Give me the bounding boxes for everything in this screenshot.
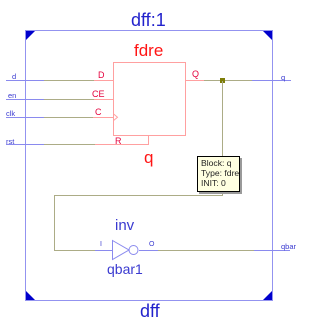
port d stub (blue) xyxy=(6,80,44,81)
pin Q wire (red) xyxy=(186,80,204,81)
inverter pin I label xyxy=(100,241,102,248)
net d (olive) xyxy=(44,80,94,81)
port qbar stub (blue) xyxy=(254,250,290,251)
net en (olive) xyxy=(44,99,94,100)
corner triangle top-right xyxy=(263,31,272,40)
net q vertical from junction (olive) xyxy=(222,81,223,195)
port clk stub (blue) xyxy=(6,117,44,118)
pin Q label xyxy=(192,69,199,79)
pin R label xyxy=(115,136,122,146)
sheet border xyxy=(25,30,273,301)
inverter pin O label xyxy=(149,241,154,248)
pin CE label xyxy=(92,89,105,99)
port d label xyxy=(12,72,16,81)
port en stub (blue) xyxy=(6,99,44,100)
net rst (olive) xyxy=(44,144,95,145)
port rst label xyxy=(6,137,14,146)
port clk label xyxy=(6,109,15,118)
port rst stub (blue) xyxy=(6,144,44,145)
net q horizontal feedback (olive) xyxy=(54,195,223,196)
port qbar label xyxy=(281,242,296,251)
port q label xyxy=(281,73,285,82)
corner triangle top-left xyxy=(26,31,35,40)
inverter output pin wire (blue) xyxy=(139,250,158,251)
symbol type label fdre xyxy=(134,41,163,61)
inverter input pin wire (blue) xyxy=(95,250,113,251)
pin C wire (red) xyxy=(93,117,113,118)
inverter U qbar1 symbol xyxy=(112,239,140,261)
instance name label q xyxy=(144,148,153,168)
net q vertical feedback left (olive) xyxy=(54,195,55,250)
net q bottom horizontal to inverter (olive) xyxy=(54,250,95,251)
sheet title dff:1 xyxy=(131,10,166,31)
net clk (olive) xyxy=(44,117,93,118)
pin CE wire (red) xyxy=(94,99,113,100)
port en label xyxy=(8,91,16,100)
tooltip box Block q xyxy=(197,156,240,192)
pin D wire (red) xyxy=(94,80,113,81)
symbol type label inv xyxy=(115,217,134,234)
corner triangle bottom-left xyxy=(26,291,35,300)
corner triangle bottom-right xyxy=(263,291,272,300)
pin C clock triangle xyxy=(113,113,119,122)
pin R wire horizontal (red) xyxy=(95,144,149,145)
pin R wire vertical (red) xyxy=(148,136,149,145)
pin C label xyxy=(95,107,102,117)
junction dot on net q xyxy=(220,78,225,83)
port q stub (blue) xyxy=(252,80,291,81)
net q horizontal (olive) xyxy=(204,80,252,81)
symbol fdre body xyxy=(113,62,186,136)
instance name label qbar1 xyxy=(107,261,143,277)
net qbar (olive) xyxy=(158,250,254,251)
sheet bottom label dff xyxy=(140,301,160,320)
pin D label xyxy=(98,70,105,80)
